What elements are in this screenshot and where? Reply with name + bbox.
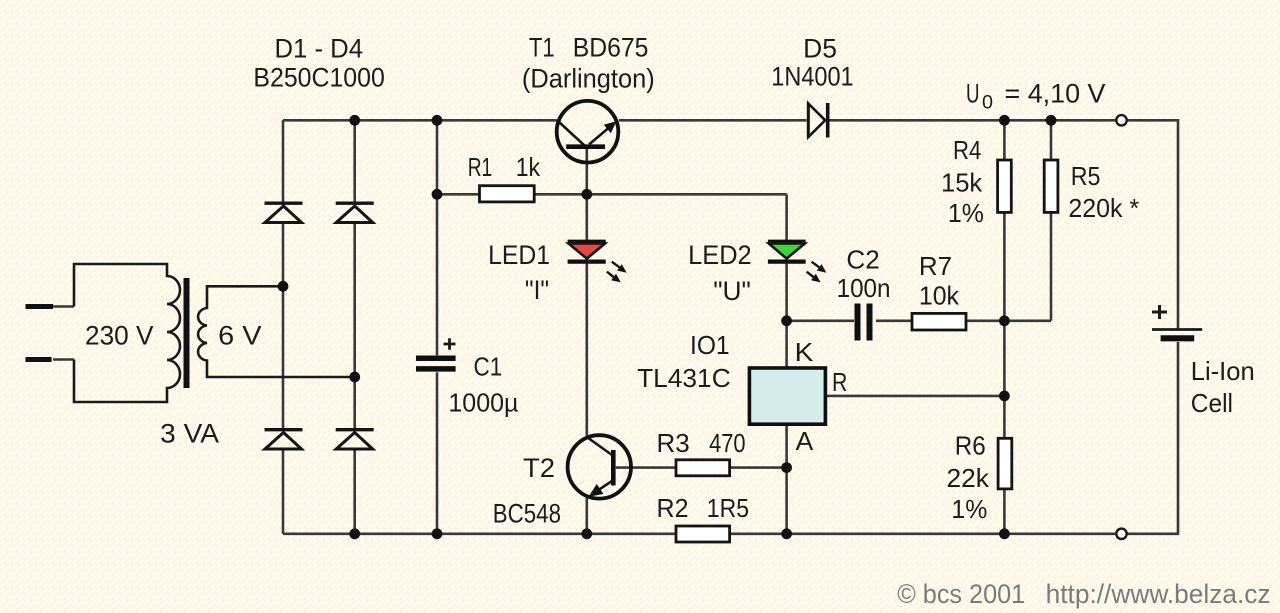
transformer TR primary winding xyxy=(74,264,180,402)
svg-text:R1: R1 xyxy=(468,152,493,182)
svg-text:T1: T1 xyxy=(529,33,555,63)
transformer secondary winding xyxy=(198,286,355,377)
wire IO1 R pin row xyxy=(825,395,1004,398)
svg-text:© bcs 2001: © bcs 2001 xyxy=(897,579,1025,609)
junction dot node K xyxy=(781,315,792,326)
junction dot secondary top xyxy=(278,281,289,292)
svg-text:Li-Ion: Li-Ion xyxy=(1191,356,1255,386)
wire left column x283 top xyxy=(282,120,285,201)
wire R6 bottom lead xyxy=(1003,489,1006,534)
svg-text:"I": "I" xyxy=(525,275,549,305)
junction dot T1 base xyxy=(581,189,592,200)
capacitor C2 xyxy=(858,304,870,341)
battery B1 xyxy=(1152,330,1202,339)
svg-text:LED1: LED1 xyxy=(488,240,550,270)
mains terminal bottom xyxy=(26,357,52,362)
wire IO1 A pin xyxy=(785,424,788,467)
resistor R5 xyxy=(1044,160,1058,212)
svg-text:R3: R3 xyxy=(657,428,690,458)
junction dot top x437 xyxy=(432,115,443,126)
wire top rail left segment xyxy=(283,119,557,122)
wire mains stub top xyxy=(53,305,74,308)
svg-text:230 V: 230 V xyxy=(85,321,154,351)
wire C2 R7 row xyxy=(787,319,1051,322)
svg-text:R4: R4 xyxy=(953,135,981,165)
terminal circle bottom xyxy=(1116,529,1126,539)
svg-text:C2: C2 xyxy=(846,244,879,274)
diode D5 xyxy=(808,103,827,138)
wire node A to bottom rail xyxy=(785,468,788,534)
resistor R4 xyxy=(998,160,1012,212)
LED2 xyxy=(768,242,827,283)
junction dot top R4 xyxy=(999,115,1010,126)
junction dot R pin xyxy=(999,391,1010,402)
wire column x355 top xyxy=(353,120,356,201)
wire R4 bottom lead xyxy=(1003,212,1006,320)
terminal circle top xyxy=(1116,115,1126,125)
mains terminal top xyxy=(26,304,54,309)
svg-text:Cell: Cell xyxy=(1191,388,1233,418)
svg-text:15k: 15k xyxy=(941,168,983,198)
wire R6 top lead xyxy=(1003,396,1006,438)
svg-text:6 V: 6 V xyxy=(218,321,261,351)
svg-text:(Darlington): (Darlington) xyxy=(522,64,655,94)
wire LED2 cathode to node K xyxy=(785,262,788,321)
svg-text:D5: D5 xyxy=(803,34,837,64)
resistor R2 xyxy=(676,526,730,542)
svg-text:R2: R2 xyxy=(657,493,689,523)
junction dot R1 left xyxy=(432,189,443,200)
wire T2 emitter to bottom rail xyxy=(585,498,588,534)
wire column x355 middle xyxy=(353,224,356,428)
junction dot bottom R6 xyxy=(999,528,1010,539)
junction dot bottom T2 xyxy=(581,528,592,539)
svg-text:R7: R7 xyxy=(919,251,952,281)
svg-text:1N4001: 1N4001 xyxy=(771,62,853,92)
svg-text:1%: 1% xyxy=(951,494,987,524)
wire T1 base xyxy=(585,149,588,194)
wire R5 bottom lead xyxy=(1050,212,1053,320)
junction dot bottom x437 xyxy=(432,528,443,539)
junction dot bottom node A xyxy=(781,528,792,539)
wire battery to bottom rail corner xyxy=(1127,342,1178,534)
wire left column x283 bottom xyxy=(282,451,285,534)
wire T2 base to R3 xyxy=(616,466,676,469)
wire LED1 anode xyxy=(585,194,588,241)
svg-text:1000µ: 1000µ xyxy=(448,388,518,418)
wire top rail T1-to-D5 xyxy=(619,119,807,122)
wire R5 top lead xyxy=(1050,120,1053,160)
wire bottom rail xyxy=(283,532,1116,535)
transformer core xyxy=(184,278,190,388)
wire left column x283 middle xyxy=(282,224,285,428)
diode D4 xyxy=(336,430,374,449)
svg-text:LED2: LED2 xyxy=(688,240,752,270)
svg-text:IO1: IO1 xyxy=(690,330,730,360)
wire LED2 anode xyxy=(785,194,788,241)
svg-text:U: U xyxy=(966,79,980,109)
label U0 = 4,10 V xyxy=(966,79,1106,114)
wire column x355 bottom xyxy=(353,451,356,534)
junction dot node A R3 xyxy=(781,462,792,473)
wire R1 row xyxy=(437,193,787,196)
svg-text:K: K xyxy=(795,337,814,367)
svg-text:10k: 10k xyxy=(919,281,960,311)
transistor T2 xyxy=(568,435,631,498)
diode D3 xyxy=(265,430,303,449)
svg-text:BD675: BD675 xyxy=(573,33,649,63)
svg-text:0: 0 xyxy=(982,93,993,114)
resistor R7 xyxy=(912,313,966,330)
IC IO1 TL431C xyxy=(749,368,825,424)
wire mains stub bottom xyxy=(53,358,74,361)
resistor R6 xyxy=(998,438,1012,489)
svg-text:B250C1000: B250C1000 xyxy=(253,63,384,93)
resistor R3 xyxy=(676,460,730,476)
wire LED1 cathode to T2 xyxy=(585,262,588,437)
wire top rail terminal-to-battery corner xyxy=(1127,120,1178,329)
C1 plus sign xyxy=(444,338,456,349)
wire R4 top lead xyxy=(1003,120,1006,160)
svg-text:220k *: 220k * xyxy=(1068,193,1139,223)
svg-text:1R5: 1R5 xyxy=(707,493,749,523)
svg-text:http://www.belza.cz: http://www.belza.cz xyxy=(1046,579,1271,609)
junction dot top x355 xyxy=(349,115,360,126)
svg-text:470: 470 xyxy=(709,428,746,458)
svg-text:100n: 100n xyxy=(837,273,891,303)
LED1 xyxy=(568,242,627,283)
transistor T1 xyxy=(557,101,619,163)
svg-text:22k: 22k xyxy=(947,463,990,493)
junction dot top R5 xyxy=(1046,115,1057,126)
svg-text:= 4,10 V: = 4,10 V xyxy=(1005,79,1106,109)
svg-text:1k: 1k xyxy=(516,152,541,182)
svg-text:R5: R5 xyxy=(1071,161,1101,191)
svg-text:A: A xyxy=(796,426,814,456)
svg-text:"U": "U" xyxy=(713,276,751,306)
svg-text:1%: 1% xyxy=(948,198,984,228)
wire R3 to node A xyxy=(730,466,787,469)
diode D1 xyxy=(265,203,303,222)
wire column x437 C1 bottom xyxy=(436,372,439,534)
svg-text:TL431C: TL431C xyxy=(637,363,731,393)
svg-text:BC548: BC548 xyxy=(493,499,561,529)
junction dot R4 C2 row xyxy=(999,315,1010,326)
wire column x437 C1 top xyxy=(436,120,439,355)
resistor R1 xyxy=(480,186,535,202)
svg-text:R6: R6 xyxy=(955,431,986,461)
wire node to R pin junction xyxy=(1003,321,1006,396)
junction dot secondary bottom xyxy=(349,372,360,383)
svg-text:R: R xyxy=(832,367,847,397)
svg-text:D1 - D4: D1 - D4 xyxy=(275,34,364,64)
svg-text:3 VA: 3 VA xyxy=(160,419,219,449)
battery plus sign xyxy=(1152,305,1167,319)
capacitor C1 xyxy=(416,358,456,369)
svg-text:C1: C1 xyxy=(474,352,503,382)
wire IO1 K pin xyxy=(785,321,788,368)
svg-text:T2: T2 xyxy=(523,453,555,483)
wire top rail D5-to-terminal xyxy=(830,119,1117,122)
diode D2 xyxy=(336,203,374,222)
junction dot bottom x355 xyxy=(349,528,360,539)
